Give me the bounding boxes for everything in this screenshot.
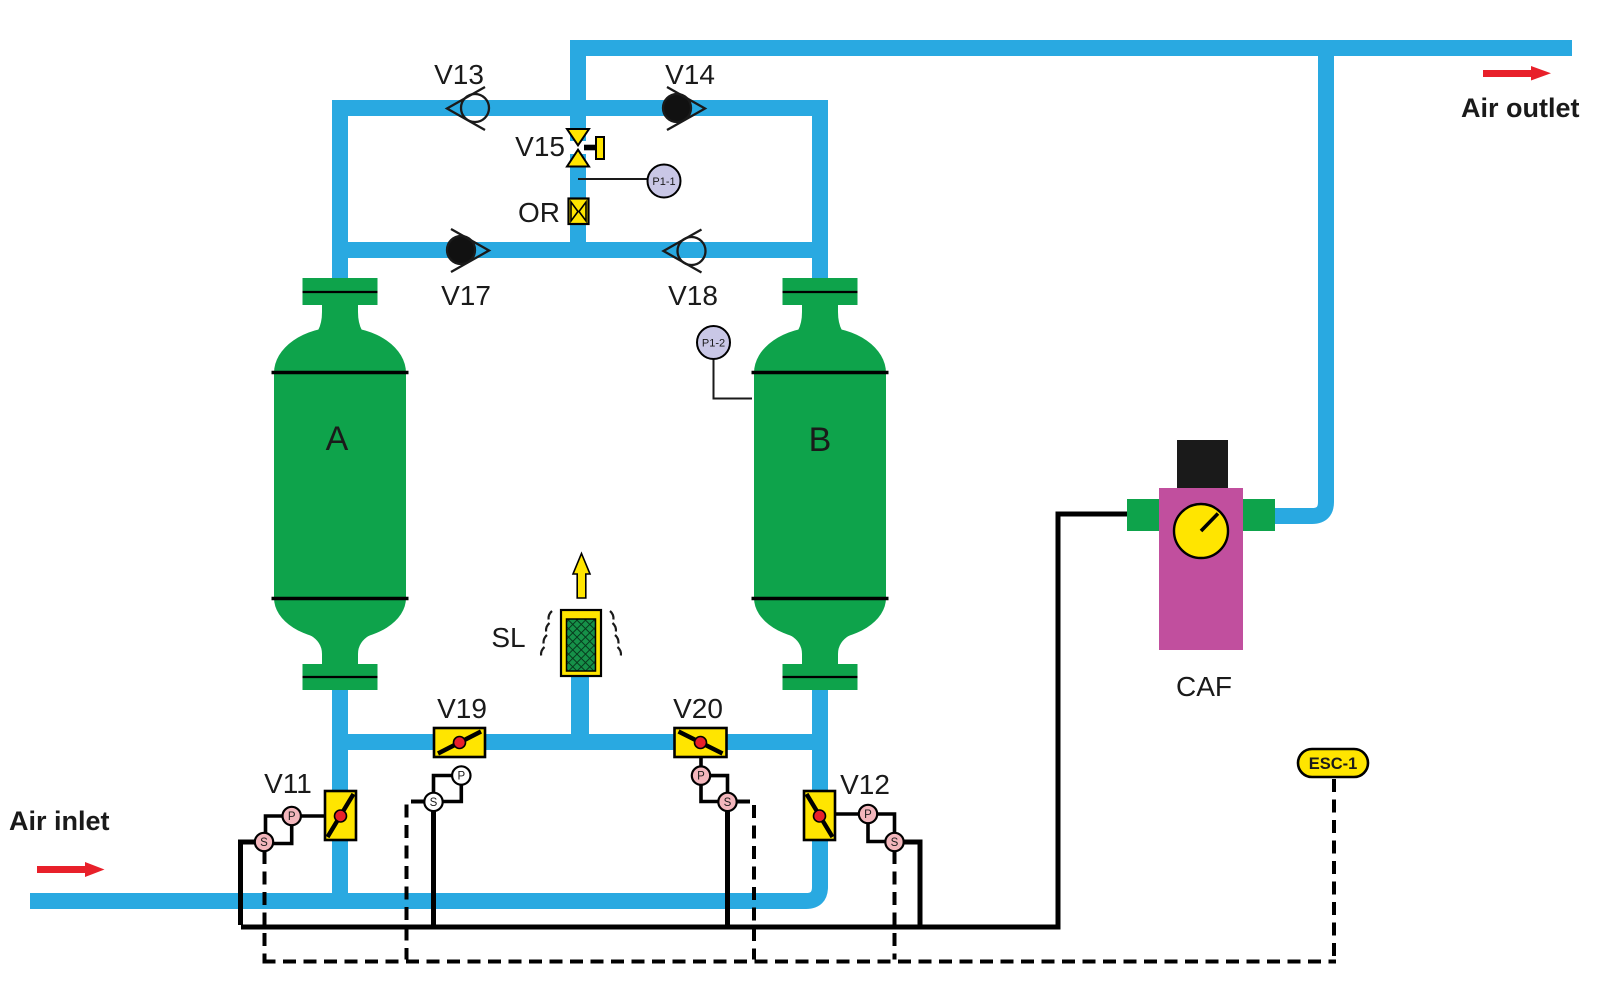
svg-text:S: S bbox=[891, 837, 899, 849]
svg-text:V20: V20 bbox=[673, 693, 723, 724]
svg-text:V17: V17 bbox=[441, 280, 491, 311]
svg-text:B: B bbox=[809, 421, 832, 459]
svg-text:V18: V18 bbox=[668, 280, 718, 311]
svg-text:V19: V19 bbox=[437, 693, 487, 724]
svg-text:OR: OR bbox=[518, 197, 560, 228]
svg-text:V12: V12 bbox=[840, 769, 890, 800]
svg-text:Air inlet: Air inlet bbox=[9, 806, 110, 836]
svg-text:V11: V11 bbox=[264, 768, 312, 799]
svg-text:V14: V14 bbox=[665, 59, 715, 90]
svg-text:V15: V15 bbox=[515, 131, 565, 162]
svg-text:P1-2: P1-2 bbox=[702, 338, 725, 350]
svg-text:S: S bbox=[430, 797, 438, 809]
svg-text:Air outlet: Air outlet bbox=[1461, 93, 1580, 123]
svg-text:P: P bbox=[697, 771, 705, 783]
svg-text:S: S bbox=[260, 837, 268, 849]
svg-text:S: S bbox=[724, 797, 732, 809]
svg-text:V13: V13 bbox=[434, 59, 484, 90]
svg-text:P: P bbox=[457, 771, 465, 783]
svg-text:P: P bbox=[288, 811, 296, 823]
svg-text:CAF: CAF bbox=[1176, 671, 1232, 702]
svg-text:SL: SL bbox=[491, 622, 525, 653]
svg-text:P1-1: P1-1 bbox=[652, 176, 675, 188]
svg-text:A: A bbox=[326, 420, 349, 458]
svg-text:ESC-1: ESC-1 bbox=[1309, 755, 1358, 773]
svg-text:P: P bbox=[864, 809, 872, 821]
